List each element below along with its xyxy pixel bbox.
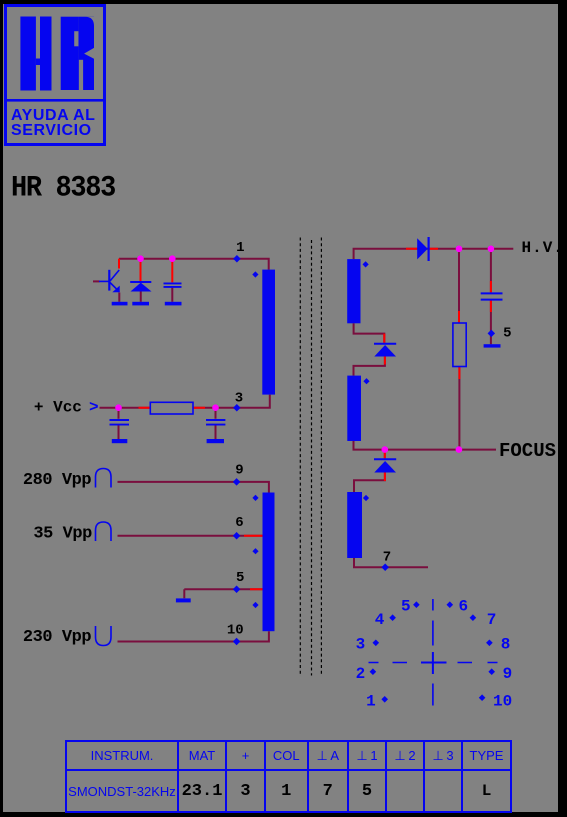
svg-text:10: 10	[227, 622, 244, 638]
svg-text:2: 2	[356, 665, 366, 683]
svg-text:+ Vcc: + Vcc	[34, 398, 82, 416]
svg-text:280 Vpp: 280 Vpp	[23, 471, 92, 490]
svg-text:3: 3	[235, 391, 243, 407]
svg-text:5: 5	[401, 597, 411, 615]
svg-text:8: 8	[501, 636, 511, 654]
svg-text:10: 10	[493, 693, 512, 711]
svg-text:4: 4	[375, 611, 385, 629]
svg-text:5: 5	[503, 326, 511, 342]
svg-text:9: 9	[503, 665, 513, 683]
svg-text:7: 7	[383, 549, 391, 565]
svg-text:35 Vpp: 35 Vpp	[33, 525, 92, 544]
svg-text:5: 5	[236, 570, 244, 586]
svg-text:6: 6	[458, 597, 468, 615]
svg-text:3: 3	[356, 636, 366, 654]
svg-text:1: 1	[236, 240, 244, 256]
svg-text:H.V.: H.V.	[522, 239, 559, 257]
svg-text:FOCUS: FOCUS	[499, 440, 556, 462]
svg-text:7: 7	[487, 611, 497, 629]
svg-text:6: 6	[235, 515, 243, 531]
svg-text:230 Vpp: 230 Vpp	[23, 628, 92, 647]
svg-text:>: >	[89, 399, 99, 417]
svg-text:1: 1	[366, 693, 376, 711]
svg-text:9: 9	[235, 463, 243, 479]
